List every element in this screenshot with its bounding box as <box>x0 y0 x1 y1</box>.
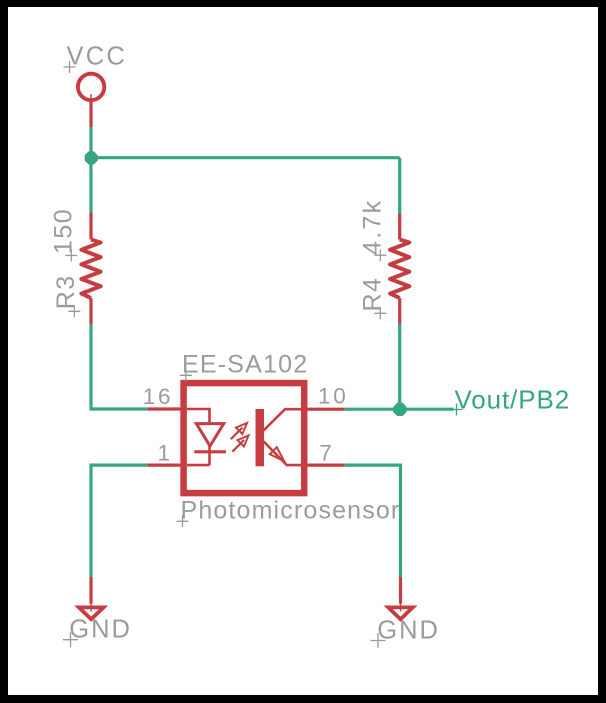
svg-text:R4: R4 <box>358 277 386 312</box>
origin cross Vout <box>451 404 463 416</box>
opto-sensor U1 body box <box>184 383 305 493</box>
LED cathode bar <box>194 450 226 453</box>
svg-text:Vout/PB2: Vout/PB2 <box>455 385 571 415</box>
ground symbol left <box>79 607 104 619</box>
svg-text:1: 1 <box>158 440 171 465</box>
origin cross EE-SA102 <box>180 369 192 381</box>
resistor R3 <box>81 213 100 324</box>
ground symbol right <box>388 607 413 619</box>
origin cross 4.7k <box>374 249 386 261</box>
frame border <box>0 0 606 7</box>
svg-text:4.7k: 4.7k <box>358 199 386 255</box>
wire pin1 to GND left <box>91 465 147 577</box>
svg-text:GND: GND <box>69 616 132 644</box>
origin cross GND right <box>371 633 386 648</box>
svg-text:7: 7 <box>319 440 332 465</box>
origin cross GND left <box>63 632 78 647</box>
ground stub right <box>399 577 402 604</box>
origin cross R3 <box>68 305 80 317</box>
junction node at Vout net <box>393 403 406 416</box>
pin stub 16 <box>147 407 183 410</box>
phototransistor collector <box>264 409 302 430</box>
light arrow lower <box>232 440 244 452</box>
svg-text:150: 150 <box>49 208 77 254</box>
svg-text:R3: R3 <box>52 274 80 309</box>
LED anode feed <box>187 409 210 422</box>
origin cross VCC <box>64 61 76 73</box>
wire net VCC vertical and top horizontal <box>91 127 400 214</box>
origin cross 150 <box>65 250 77 262</box>
svg-text:GND: GND <box>377 617 440 645</box>
junction node at VCC rail <box>85 151 98 164</box>
svg-text:10: 10 <box>318 383 348 408</box>
phototransistor emitter <box>264 441 302 465</box>
wire R4 bottom to junction <box>398 324 401 410</box>
ground stub left <box>89 577 92 604</box>
light arrow upper <box>231 428 243 440</box>
wire pin7 to GND right <box>345 465 401 577</box>
supply symbol VCC <box>78 74 104 127</box>
wire pin10 row to Vout <box>345 408 454 411</box>
svg-text:EE-SA102: EE-SA102 <box>182 351 308 379</box>
LED cathode lead <box>187 446 210 465</box>
pin stub 7 <box>304 464 345 467</box>
resistor R4 <box>390 214 409 324</box>
emitter arrow <box>270 447 284 461</box>
wire R3 bottom to pin16 <box>91 324 147 409</box>
svg-text:Photomicrosensor: Photomicrosensor <box>181 497 401 525</box>
origin cross Photomicrosensor <box>177 515 189 527</box>
origin cross R4 <box>374 307 386 319</box>
svg-text:16: 16 <box>143 384 174 409</box>
svg-text:VCC: VCC <box>67 43 127 71</box>
LED triangle <box>196 424 223 446</box>
pin stub 1 <box>147 464 183 467</box>
phototransistor base bar <box>256 409 265 466</box>
pin stub 10 <box>304 408 345 411</box>
